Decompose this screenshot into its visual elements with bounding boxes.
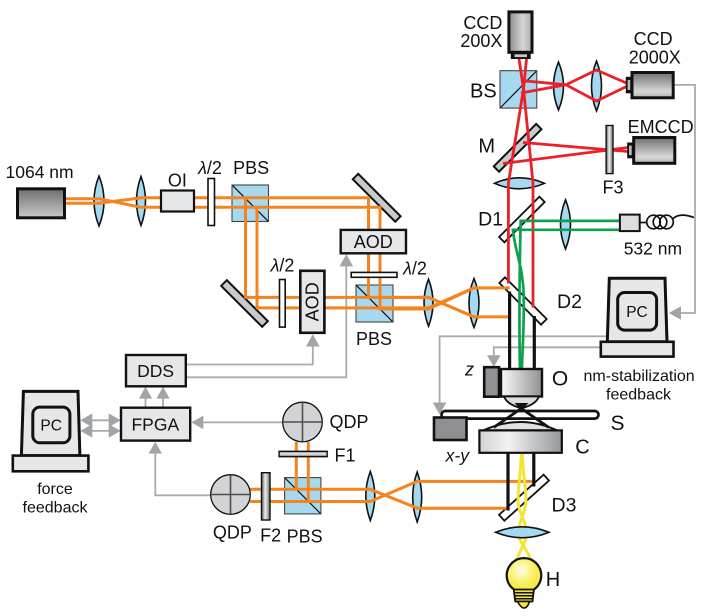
svg-text:λ/2: λ/2: [270, 256, 295, 276]
dichroic D2: [499, 277, 546, 324]
wire DDS to AOD1: [186, 346, 313, 365]
svg-text:PC: PC: [40, 418, 62, 435]
halogen lamp H bulb: [507, 558, 542, 593]
yellow lamp beams: [517, 454, 531, 559]
condenser dome: [483, 422, 557, 430]
x-y stage actuator: [434, 418, 467, 441]
svg-text:DDS: DDS: [137, 361, 174, 381]
arrowhead into nm-PC: [669, 306, 681, 320]
wire beam 532 bottom: [513, 230, 620, 369]
svg-text:feedback: feedback: [23, 500, 89, 517]
dichroic D3: [499, 475, 549, 521]
arrowhead onto z piezo: [487, 355, 501, 367]
wire black D2-objective left: [508, 292, 511, 370]
svg-text:M: M: [478, 136, 495, 158]
mirror M1 top-right: [353, 174, 401, 222]
wire beam PBS3 up 1: [295, 442, 298, 489]
wire beam laser top line: [66, 199, 510, 309]
AOD1 box vertical: [300, 271, 324, 333]
wire nm-PC to stage arrow: [440, 336, 607, 403]
z piezo box: [484, 367, 499, 397]
svg-text:AOD: AOD: [303, 282, 323, 321]
svg-text:O: O: [552, 368, 568, 391]
wire DDS to AOD2: [186, 266, 346, 377]
arrowhead onto stage: [433, 403, 447, 415]
arrowhead PC-FPGA bus 1 left: [80, 413, 92, 427]
wire beam D3 to QDP2 low: [250, 489, 509, 508]
half-wave plate 3 horizontal: [351, 272, 397, 277]
svg-text:EMCCD: EMCCD: [628, 117, 694, 137]
arrowhead into DDS left: [139, 387, 152, 399]
svg-text:H: H: [546, 569, 560, 591]
mirror M2 lower-left: [221, 280, 268, 327]
orange trap beams: [66, 198, 510, 317]
red imaging beams: [503, 59, 628, 308]
CCD 200X camera: [509, 12, 532, 59]
PBS1 cube: [232, 185, 269, 222]
wire black condenser-D3 left: [506, 453, 509, 511]
CCD 2000X camera: [626, 73, 673, 98]
wire beam PBS1 reflected 1: [246, 198, 475, 317]
svg-text:PC: PC: [626, 304, 648, 321]
arrowhead PC-FPGA bus 2 left: [80, 424, 92, 438]
svg-text:nm-stabilization: nm-stabilization: [584, 368, 695, 385]
wire beam M to EMCCD 1: [523, 143, 628, 152]
svg-text:feedback: feedback: [606, 386, 672, 403]
lens L10: [366, 472, 375, 521]
wire beam BS to CCD2000X 1: [521, 70, 628, 85]
svg-text:200X: 200X: [460, 31, 502, 51]
BS cube: [500, 71, 537, 108]
svg-text:D1: D1: [478, 209, 503, 231]
svg-text:QDP: QDP: [213, 523, 252, 543]
lamp screw base: [514, 590, 534, 609]
lens L1: [94, 176, 104, 226]
wire black D2-objective right: [533, 316, 536, 369]
wire beam 532 top: [519, 221, 619, 369]
svg-text:F1: F1: [335, 445, 356, 465]
svg-text:1064 nm: 1064 nm: [6, 162, 74, 182]
wire FPGA to DDS: [146, 398, 164, 408]
EMCCD camera: [627, 138, 675, 164]
arrowhead into FPGA right: [191, 416, 203, 430]
lens L11: [413, 472, 422, 522]
svg-text:F2: F2: [260, 525, 281, 545]
wire QDP2 to FPGA: [155, 453, 211, 495]
filter F3: [606, 126, 613, 174]
arrowhead into AOD2: [340, 254, 354, 266]
wire CCD2000X to nm-PC: [674, 85, 696, 313]
filter F2: [262, 473, 271, 520]
wire beam PBS3 up 2: [307, 442, 310, 502]
objective O: [501, 369, 542, 410]
laser 532 nm box: [620, 215, 640, 232]
wire beam M to EMCCD 2: [503, 148, 628, 164]
svg-text:CCD: CCD: [463, 13, 502, 33]
svg-text:AOD: AOD: [354, 232, 393, 252]
arrowhead into AOD1: [306, 334, 320, 346]
AOD2 box: [341, 230, 406, 253]
wire beam D3 to QDP2 high: [250, 481, 535, 501]
lens L4: [469, 279, 479, 328]
svg-text:FPGA: FPGA: [131, 415, 179, 435]
lens L6: [592, 61, 602, 111]
svg-text:S: S: [610, 412, 624, 435]
svg-text:λ/2: λ/2: [197, 158, 222, 178]
FPGA box: [121, 408, 190, 441]
svg-text:x-y: x-y: [445, 446, 471, 466]
svg-text:PBS: PBS: [356, 329, 392, 349]
lens L3: [424, 279, 433, 326]
svg-text:PBS: PBS: [233, 158, 269, 178]
arrowhead PC-FPGA bus 1 right: [109, 413, 121, 427]
lens L8 green path: [561, 200, 571, 249]
lens L7: [495, 178, 545, 189]
arrowhead into DDS right: [156, 387, 169, 399]
sample focus cross: [494, 409, 549, 428]
wire nm-PC to z arrow: [494, 347, 600, 356]
svg-text:2000X: 2000X: [629, 47, 681, 67]
QDP1 detector: [283, 402, 323, 442]
svg-text:λ/2: λ/2: [402, 259, 427, 279]
wire beam PBS1 reflected 2: [257, 207, 474, 308]
dichroic D1: [499, 197, 545, 243]
lens L2: [137, 177, 146, 226]
wire beam BS up-down 1: [508, 59, 523, 284]
wire beam laser bottom line: [66, 198, 510, 317]
wire QDP1 to FPGA: [202, 421, 283, 423]
PBS3 cube: [285, 478, 321, 514]
arrowhead into FPGA bottom: [149, 442, 162, 454]
PC force feedback monitor: [13, 391, 89, 471]
PBS2 cube: [356, 285, 393, 322]
wire beam BS up-down 2: [524, 59, 534, 308]
mirror M: [494, 124, 542, 172]
stage S bar: [442, 411, 599, 419]
svg-text:CCD: CCD: [634, 29, 673, 49]
lens L9 above lamp: [496, 527, 549, 538]
svg-text:F3: F3: [602, 178, 623, 198]
arrowhead PC-FPGA bus 2 right: [109, 424, 121, 438]
half-wave plate 1: [208, 179, 215, 226]
wire black condenser-D3 right: [532, 453, 535, 487]
QDP2 detector: [211, 475, 251, 515]
green 532 beams: [513, 221, 620, 369]
svg-text:BS: BS: [470, 80, 497, 102]
svg-text:C: C: [575, 437, 589, 459]
svg-text:532 nm: 532 nm: [624, 239, 682, 259]
fiber coil: [640, 215, 694, 229]
svg-text:D3: D3: [552, 495, 577, 517]
orange detection beams: [250, 442, 535, 508]
svg-text:OI: OI: [168, 171, 187, 191]
svg-text:QDP: QDP: [330, 412, 369, 432]
svg-text:force: force: [37, 481, 73, 498]
PC nm-stabilization monitor: [601, 278, 674, 356]
svg-text:D2: D2: [557, 291, 582, 313]
optical isolator OI: [161, 191, 194, 212]
filter F1: [279, 451, 327, 456]
wire PC-FPGA bus: [90, 420, 111, 431]
svg-text:z: z: [464, 360, 474, 380]
laser 1064 nm box: [18, 189, 65, 218]
black illumination lines: [508, 292, 534, 511]
half-wave plate 2 vertical: [280, 280, 286, 328]
svg-text:PBS: PBS: [287, 526, 323, 546]
condenser C body: [479, 430, 561, 452]
lens L5: [554, 62, 564, 110]
wire beam BS to CCD2000X 2: [521, 85, 628, 101]
DDS box: [126, 355, 186, 386]
